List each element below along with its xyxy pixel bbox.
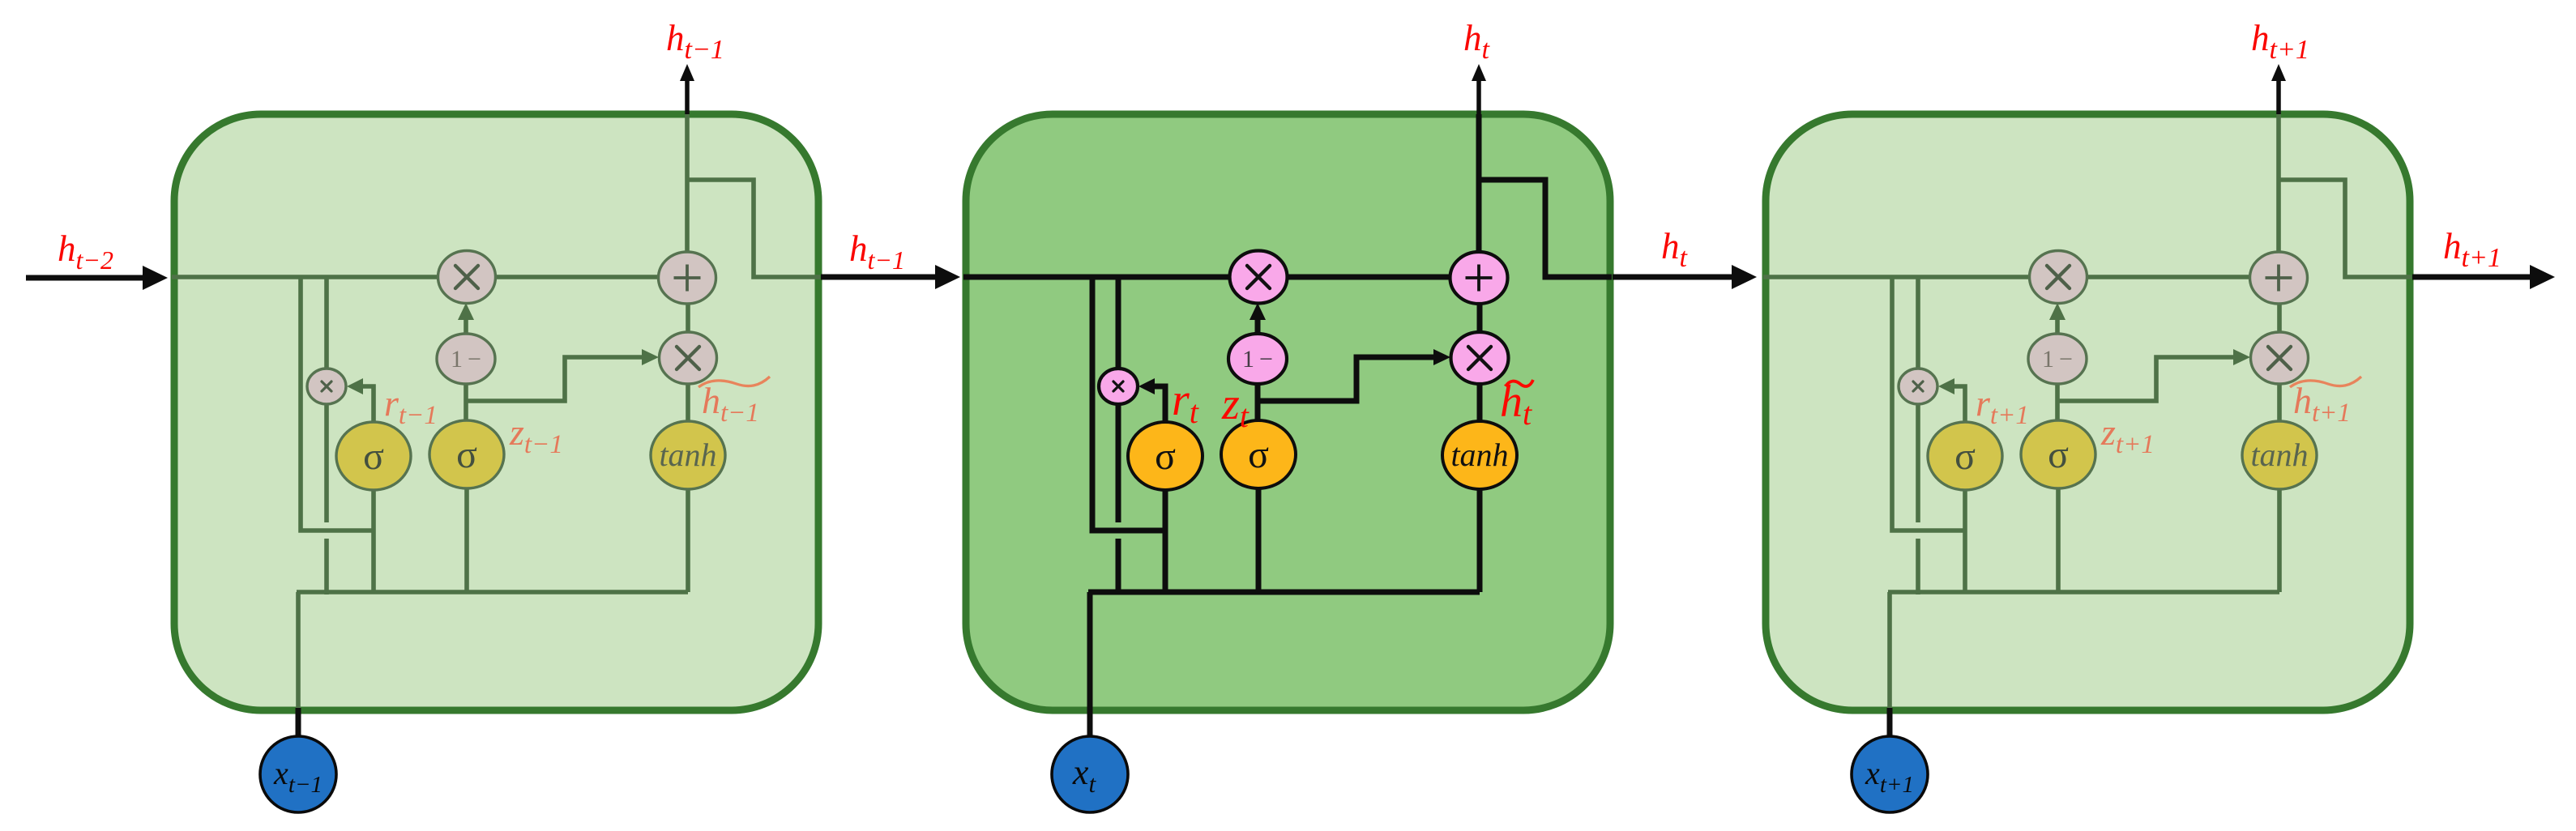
wire tanh feed xyxy=(2277,489,2282,592)
wire x input vertical inside cell xyxy=(1887,592,1892,708)
wire candidate multiply to tanh xyxy=(2277,382,2282,422)
tanh gate xyxy=(2242,421,2317,489)
adder gate on h line xyxy=(2250,252,2308,304)
wire z gate up to 1-minus xyxy=(2055,384,2060,422)
wire candidate multiply to tanh xyxy=(686,382,690,422)
label candidate h tilde xyxy=(698,377,770,387)
wire z elbow to candidate multiply xyxy=(2058,357,2233,401)
arrow reset gate into small multiply xyxy=(1154,386,1165,422)
arrow h output top of cell xyxy=(2276,79,2281,114)
wire output step branch xyxy=(1479,180,1612,277)
arrow h t between cells xyxy=(1613,275,1733,280)
wire output step branch xyxy=(2279,180,2412,277)
svg-text:tanh: tanh xyxy=(2250,437,2308,473)
wire h tap B lower segment xyxy=(1116,539,1121,594)
wire bottom input bus xyxy=(1888,590,2279,594)
wire x input below cell xyxy=(296,708,301,738)
sigma gate z xyxy=(1221,420,1296,488)
small reset multiply node xyxy=(1099,369,1138,404)
wire h tap A down xyxy=(301,277,374,531)
sigma gate z xyxy=(2021,420,2095,488)
wire h output up from adder xyxy=(685,114,690,279)
sigma gate r xyxy=(1928,422,2002,490)
wire output step branch xyxy=(687,180,820,277)
wire h tap B through reset multiply xyxy=(1116,277,1121,522)
svg-text:σ: σ xyxy=(1954,435,1976,478)
multiply gate on h line xyxy=(1230,251,1288,304)
wire candidate multiply to tanh xyxy=(1477,382,1483,422)
wire h tap B through reset multiply xyxy=(324,277,329,522)
svg-text:1 −: 1 − xyxy=(1242,346,1273,373)
svg-text:σ: σ xyxy=(2048,433,2069,476)
arrow 1-minus to multiply gate xyxy=(2055,318,2060,333)
tanh gate xyxy=(651,421,725,489)
wire x input vertical inside cell xyxy=(296,592,301,708)
wire sigma-z feed xyxy=(1256,488,1262,592)
arrow h t-1 between cells xyxy=(821,275,937,280)
svg-text:tanh: tanh xyxy=(659,437,716,473)
adder gate on h line xyxy=(659,252,716,304)
wire adder to candidate multiply xyxy=(686,304,690,333)
arrow reset gate into small multiply xyxy=(362,386,374,422)
sigma gate z xyxy=(429,420,504,488)
wire h tap A down xyxy=(1092,277,1165,531)
1-minus node xyxy=(437,334,495,384)
candidate multiply gate xyxy=(660,332,717,384)
input node x xyxy=(260,736,336,812)
multiply gate on h line xyxy=(2030,251,2087,304)
wire h state line xyxy=(172,275,687,279)
wire adder to candidate multiply xyxy=(2277,304,2282,333)
wire sigma-r feed xyxy=(1963,490,1967,592)
wire h state line xyxy=(963,275,1479,280)
wire bottom input bus xyxy=(1088,590,1480,595)
arrow output h t+1 xyxy=(2412,275,2531,280)
wire sigma-z feed xyxy=(464,488,469,592)
1-minus node xyxy=(1228,334,1287,384)
svg-text:σ: σ xyxy=(363,435,384,478)
wire z elbow to candidate multiply xyxy=(467,357,642,401)
label candidate h tilde xyxy=(2290,377,2361,387)
input node x xyxy=(1852,736,1928,812)
wire z elbow to candidate multiply xyxy=(1258,357,1433,401)
GRU cell t+1 box xyxy=(1766,114,2410,710)
wire z gate up to 1-minus xyxy=(1255,384,1261,422)
sigma gate r xyxy=(1128,422,1203,490)
wire sigma-r feed xyxy=(371,490,376,592)
wire x input below cell xyxy=(1887,708,1893,738)
1-minus node xyxy=(2028,334,2087,384)
sigma gate r xyxy=(336,422,411,490)
arrow h output top of cell xyxy=(685,79,690,114)
arrow 1-minus to multiply gate xyxy=(1255,318,1261,333)
multiply gate on h line xyxy=(438,251,496,304)
svg-text:1 −: 1 − xyxy=(451,346,481,373)
wire tanh feed xyxy=(1477,489,1483,592)
wire z gate up to 1-minus xyxy=(464,384,468,422)
arrow input h t-2 xyxy=(26,275,144,281)
wire x input vertical inside cell xyxy=(1087,592,1093,708)
wire h tap B lower segment xyxy=(324,539,329,594)
label candidate h tilde xyxy=(1506,380,1533,386)
arrow reset gate into small multiply xyxy=(1954,386,1965,422)
GRU cell t-1 box xyxy=(174,114,818,710)
wire x input below cell xyxy=(1087,708,1093,738)
wire sigma-z feed xyxy=(2056,488,2061,592)
adder gate on h line xyxy=(1450,252,1508,304)
wire h output up from adder xyxy=(1476,114,1482,279)
svg-text:σ: σ xyxy=(1155,435,1176,478)
wire adder to candidate multiply xyxy=(1477,304,1483,333)
svg-text:σ: σ xyxy=(1248,433,1269,476)
GRU cell t box xyxy=(966,114,1610,710)
tanh gate xyxy=(1442,421,1517,489)
arrow 1-minus to multiply gate xyxy=(464,318,468,333)
wire h output up from adder xyxy=(2276,114,2281,279)
candidate multiply gate xyxy=(2251,332,2309,384)
wire h tap A down xyxy=(1892,277,1965,531)
arrow h output top of cell xyxy=(1476,79,1481,114)
wire bottom input bus xyxy=(297,590,688,594)
input node x xyxy=(1052,736,1128,812)
wire h tap B lower segment xyxy=(1916,539,1920,594)
wire h state line xyxy=(1763,275,2279,279)
candidate multiply gate xyxy=(1451,332,1509,384)
svg-text:σ: σ xyxy=(456,433,477,476)
svg-text:1 −: 1 − xyxy=(2042,346,2073,373)
small reset multiply node xyxy=(1899,369,1937,404)
wire h tap B through reset multiply xyxy=(1916,277,1920,522)
wire sigma-r feed xyxy=(1163,490,1168,592)
svg-text:tanh: tanh xyxy=(1450,437,1508,473)
small reset multiply node xyxy=(307,369,346,404)
wire tanh feed xyxy=(686,489,690,592)
